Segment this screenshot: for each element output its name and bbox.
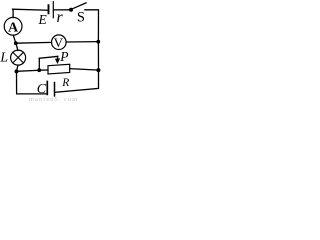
- svg-text:r: r: [57, 9, 64, 26]
- capacitor C right plate: [54, 83, 56, 96]
- wire: node D2 down left side to bottom corner and to capacitor: [17, 71, 47, 94]
- wire: right side node D5 up to node D4: [97, 42, 99, 70]
- node D3 junction dot: [37, 68, 41, 72]
- switch S pivot dot: [69, 8, 73, 12]
- node D1 junction dot: [14, 41, 18, 45]
- switch S lever arm: [72, 3, 87, 9]
- wire: voltmeter branch left (node D1 to voltmeter): [16, 41, 52, 44]
- wire: node D3 to rheostat box left terminal: [39, 69, 48, 71]
- wire: top-left vertical from ammeter to corner: [12, 9, 14, 17]
- svg-text:C: C: [37, 82, 47, 97]
- wire: lamp bottom to node D2: [17, 65, 19, 71]
- battery E right (long thin) plate: [52, 2, 54, 18]
- node D2 junction dot: [15, 69, 19, 73]
- lamp L cross diagonals: [13, 52, 24, 63]
- wire: voltmeter right to node D4: [66, 41, 98, 43]
- svg-text:P: P: [59, 49, 68, 64]
- battery E left (short thick) plate: [48, 5, 50, 13]
- svg-text:L: L: [0, 49, 8, 64]
- wire: top horizontal corner to battery: [13, 9, 48, 10]
- capacitor C left plate: [46, 82, 48, 95]
- rheostat R slider arrow head: [55, 58, 60, 64]
- svg-text:S: S: [77, 10, 85, 26]
- wire: node D1 to lamp top: [16, 43, 18, 50]
- rheostat R slider arrow shaft: [57, 56, 59, 60]
- wire: battery to switch dot: [54, 9, 71, 11]
- wire: right side node D4 up to top-right corner and to switch: [85, 10, 99, 42]
- svg-text:R: R: [61, 77, 69, 89]
- voltmeter V1 circle: [52, 35, 67, 50]
- svg-text:E: E: [38, 12, 48, 27]
- wire: riser from node D3 up to slider wire: [38, 58, 40, 70]
- ammeter A1 circle: [4, 17, 22, 35]
- wire: capacitor to bottom-right corner and up right side to node D5: [55, 70, 98, 92]
- svg-text:V: V: [54, 35, 64, 50]
- node D4 junction dot: [96, 40, 100, 44]
- rheostat R box: [48, 64, 70, 74]
- wire: ammeter bottom to node D1: [13, 35, 16, 43]
- node D5 junction dot: [96, 68, 100, 72]
- wire: rheostat box right terminal to node D5: [70, 69, 99, 71]
- svg-text:manfen5. com: manfen5. com: [29, 96, 78, 103]
- svg-text:A: A: [8, 21, 19, 36]
- lamp L circle: [11, 50, 26, 65]
- wire: slider wire to arrow of rheostat: [39, 56, 57, 58]
- wire: node D2 to node D3 (rheostat row): [17, 70, 40, 71]
